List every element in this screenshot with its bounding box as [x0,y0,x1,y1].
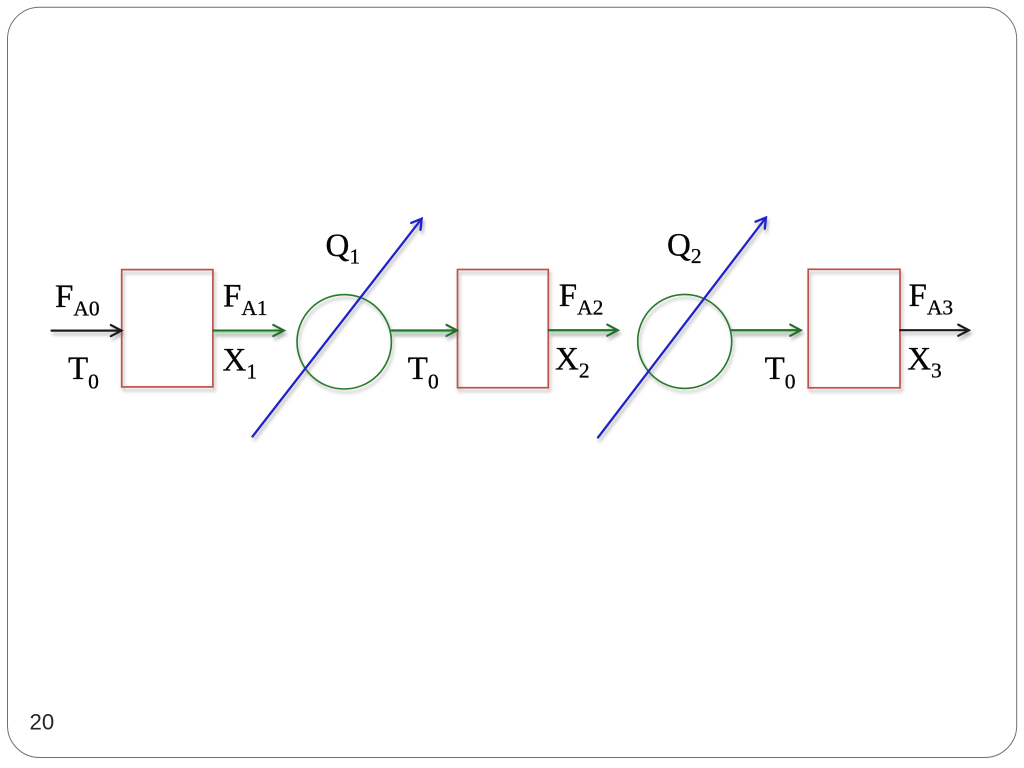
svg-text:X1: X1 [223,342,258,383]
svg-text:T0: T0 [68,351,99,394]
svg-text:Q1: Q1 [326,228,361,269]
svg-text:20: 20 [30,710,55,735]
svg-text:T0: T0 [408,351,439,394]
svg-text:X3: X3 [907,342,942,383]
svg-text:FA3: FA3 [909,278,954,320]
svg-text:T0: T0 [765,351,796,394]
svg-text:X2: X2 [555,342,590,383]
svg-text:FA2: FA2 [559,278,604,320]
svg-text:FA0: FA0 [55,279,100,321]
svg-text:FA1: FA1 [223,279,268,321]
svg-text:Q2: Q2 [667,228,702,269]
